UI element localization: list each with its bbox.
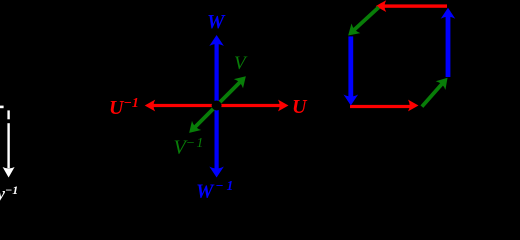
hexagon: left blue arrowhead down (344, 95, 359, 106)
hexagon: left blue arrow shaft (348, 36, 353, 99)
arrowhead V up-right (234, 72, 251, 89)
left figure: white vertical arrow V^-1 shaft (7, 123, 9, 168)
arrowhead U right (278, 100, 289, 112)
wire: red U right shaft (216, 104, 281, 107)
left figure: white arrowhead down (3, 167, 15, 178)
hexagon: SE green arrowhead up-right (436, 73, 453, 89)
arrowhead V^-1 down-left (185, 121, 202, 138)
hexagon: NW green arrowhead down-left (344, 24, 361, 41)
wire: green V diagonal shaft (217, 82, 241, 106)
wire: blue W^-1 down shaft (215, 105, 219, 171)
hexagon: right blue arrowhead up (441, 8, 456, 19)
label W^-1 (blue) (196, 179, 236, 202)
arrowhead U^-1 left (145, 100, 156, 112)
hexagon: right blue arrow shaft (446, 12, 451, 77)
label V (green) (234, 54, 246, 73)
arrowhead W up (209, 35, 224, 46)
left figure: white tick mark (0, 106, 4, 109)
hexagon: top red arrowhead left (376, 0, 387, 12)
label V^-1 (green) (174, 137, 205, 158)
hexagon: bottom red arrowhead right (408, 100, 419, 112)
arrowhead W^-1 down (209, 167, 224, 178)
left figure: white vertical wire segment (dashed top) (7, 110, 9, 119)
hexagon: bottom red arrow shaft (350, 105, 412, 108)
label V^-1 left white (cut off) (0, 184, 18, 204)
hexagon: top red arrow shaft (383, 4, 447, 7)
hexagon: SE green arrow shaft (422, 83, 443, 107)
label U (red) (292, 97, 306, 117)
label U^-1 (red) (109, 97, 139, 118)
wire: red U^-1 left shaft (152, 104, 217, 107)
wire: blue W axis up shaft (215, 40, 219, 106)
label W (blue) (207, 13, 224, 33)
wire: green V^-1 diagonal shaft (194, 106, 217, 129)
node: center black dot (212, 101, 222, 111)
hexagon: NW green arrow shaft (353, 7, 379, 31)
